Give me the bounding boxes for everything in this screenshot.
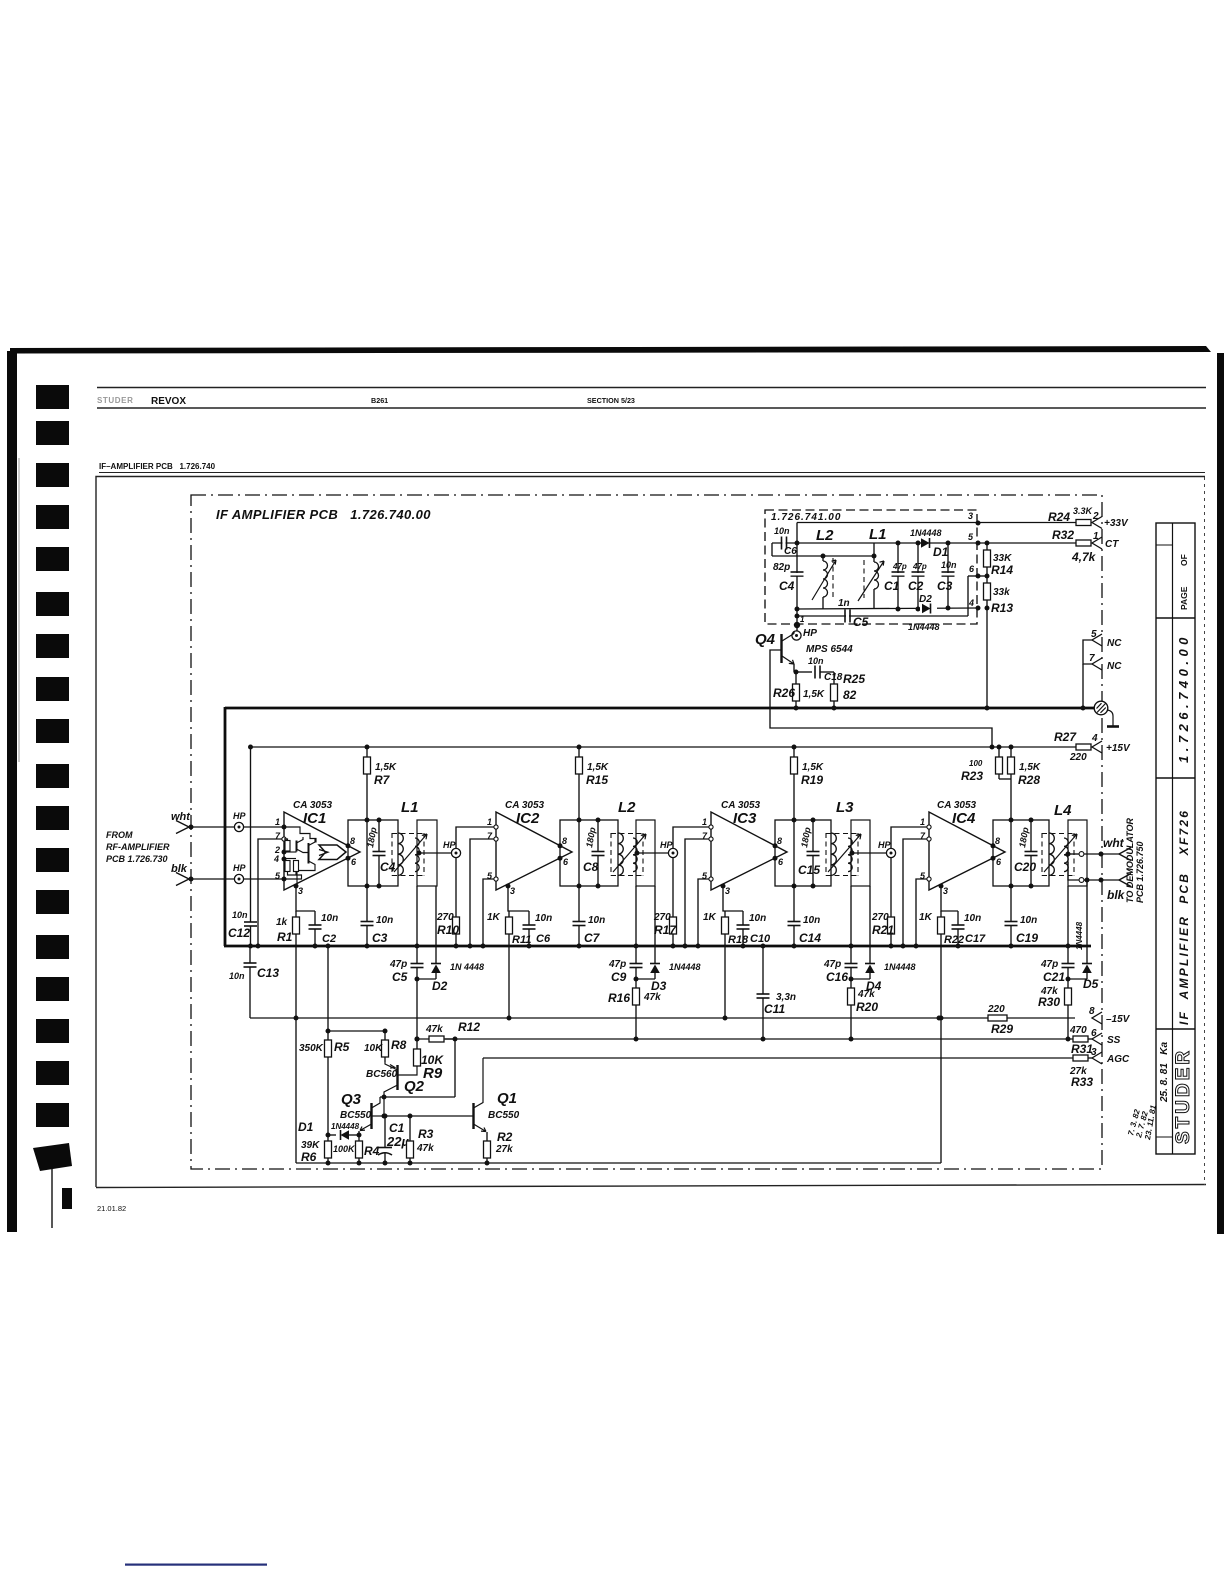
resistor R12 47k — [429, 1036, 444, 1042]
svg-text:R5: R5 — [334, 1040, 350, 1054]
svg-text:47p: 47p — [1040, 959, 1058, 970]
svg-text:C1: C1 — [389, 1121, 405, 1135]
svg-text:BC550: BC550 — [488, 1110, 520, 1121]
testpoint HP stage2 — [451, 848, 460, 857]
svg-text:PAGE: PAGE — [1179, 586, 1189, 610]
node pin5 — [282, 877, 287, 882]
node wht output arrow — [1119, 848, 1131, 861]
capacitor C5 sub 1n — [845, 610, 850, 623]
svg-text:OF: OF — [1179, 554, 1189, 566]
svg-text:270: 270 — [436, 912, 454, 923]
testpoint HP sub — [796, 628, 798, 631]
svg-text:5: 5 — [1091, 629, 1097, 640]
inductor secondary winding — [848, 838, 852, 872]
svg-text:8: 8 — [350, 836, 355, 846]
svg-text:100: 100 — [969, 759, 983, 768]
svg-text:R1: R1 — [277, 930, 293, 944]
inductor L1 transformer — [348, 820, 398, 886]
wire SS rail — [417, 1038, 1073, 1040]
resistor R8 10K — [382, 1040, 389, 1057]
node pin3 — [721, 884, 726, 889]
wire detector join — [417, 978, 436, 980]
svg-text:AGC: AGC — [1106, 1054, 1130, 1065]
svg-text:10n: 10n — [964, 913, 981, 924]
node pin8 — [991, 843, 996, 848]
wire supply riser through box — [366, 820, 368, 886]
svg-text:4: 4 — [1091, 733, 1098, 744]
svg-text:220: 220 — [1069, 752, 1087, 763]
svg-text:R4: R4 — [364, 1144, 380, 1158]
wire +15V rail — [251, 746, 1075, 748]
svg-text:3: 3 — [1091, 1047, 1097, 1058]
core adjust arrow — [613, 834, 646, 872]
resistor R18 1K — [724, 911, 726, 917]
testpoint HP stage3 — [668, 848, 677, 857]
svg-text:33k: 33k — [993, 587, 1010, 598]
svg-text:6: 6 — [1091, 1028, 1097, 1039]
svg-text:L3: L3 — [836, 799, 854, 816]
diode D1 1N4448 — [328, 1134, 336, 1136]
svg-text:Q1: Q1 — [497, 1090, 517, 1107]
scan left edge bar — [7, 351, 17, 1232]
wire wht line — [191, 826, 284, 828]
svg-text:NC: NC — [1107, 638, 1122, 649]
capacitor C2 10n — [314, 911, 316, 925]
capacitor C13 — [249, 946, 251, 963]
svg-text:STUDER: STUDER — [1173, 1048, 1194, 1144]
op-amp IC1 CA3053 — [284, 812, 360, 890]
svg-text:220: 220 — [987, 1004, 1005, 1015]
svg-text:C2: C2 — [908, 579, 924, 593]
svg-text:1k: 1k — [276, 917, 288, 928]
wire pin5 bypass — [916, 879, 929, 946]
inductor L3 transformer — [775, 820, 831, 886]
svg-text:7: 7 — [1089, 653, 1095, 664]
svg-text:3: 3 — [298, 886, 303, 896]
svg-text:1.726.741.00: 1.726.741.00 — [771, 512, 841, 523]
svg-text:R32: R32 — [1052, 528, 1074, 542]
connector pin 8 -15V — [1092, 1012, 1102, 1024]
svg-text:IF–AMPLIFIER PCB 1.726.740: IF–AMPLIFIER PCB 1.726.740 — [99, 462, 216, 471]
transistor Q3 BC550 — [370, 1103, 372, 1129]
resistor R16 47k — [635, 979, 637, 988]
capacitor C21 47p — [1067, 886, 1069, 963]
svg-text:+33V: +33V — [1104, 518, 1129, 529]
svg-text:R23: R23 — [961, 769, 983, 783]
svg-text:R6: R6 — [301, 1150, 317, 1164]
svg-text:D1: D1 — [298, 1120, 314, 1134]
wire supply riser through box — [793, 820, 795, 886]
resistor R23 100 — [998, 747, 1000, 757]
node pin3 — [294, 884, 299, 889]
resistor R9 10K — [414, 1049, 421, 1066]
svg-text:IC1: IC1 — [303, 810, 326, 827]
resistor R19 1,5K — [793, 747, 795, 757]
secondary box — [636, 820, 655, 886]
svg-text:1: 1 — [920, 817, 925, 827]
op-amp IC2 CA3053 — [496, 812, 572, 890]
svg-text:1N4448: 1N4448 — [908, 622, 940, 632]
resistor R31 470 — [1073, 1036, 1088, 1042]
svg-text:47p: 47p — [608, 959, 626, 970]
svg-text:R22: R22 — [944, 934, 964, 946]
resistor R11 1K — [508, 911, 510, 917]
svg-text:R3: R3 — [418, 1127, 434, 1141]
svg-text:R27: R27 — [1054, 730, 1077, 744]
svg-text:4: 4 — [273, 854, 279, 864]
svg-text:R10: R10 — [437, 923, 459, 937]
svg-text:HP: HP — [233, 811, 246, 821]
wire hp riser to pin1 — [673, 827, 711, 848]
svg-text:C17: C17 — [965, 933, 986, 945]
wire pin4 net to ground rail — [976, 606, 981, 611]
svg-text:R33: R33 — [1071, 1075, 1093, 1089]
svg-text:C20: C20 — [1014, 860, 1036, 874]
svg-text:BC560: BC560 — [366, 1069, 398, 1080]
svg-text:IC2: IC2 — [516, 810, 540, 827]
svg-text:R13: R13 — [991, 601, 1013, 615]
svg-text:1N 4448: 1N 4448 — [450, 962, 484, 972]
svg-text:R29: R29 — [991, 1022, 1013, 1036]
wire right -15V tie — [940, 1018, 942, 1163]
title block frame — [1156, 523, 1195, 1154]
resistor R15 1,5K — [578, 747, 580, 757]
svg-text:blk: blk — [1107, 888, 1126, 902]
capacitor C3 10n — [366, 886, 368, 922]
svg-text:10n: 10n — [321, 913, 338, 924]
svg-text:4: 4 — [968, 598, 974, 608]
core dashed — [825, 833, 827, 876]
transistor Q4 MPS6544 — [780, 634, 782, 663]
wire sub pin6 stub — [967, 576, 969, 616]
wire Q4 base route — [770, 650, 992, 747]
svg-text:STUDER: STUDER — [97, 396, 134, 405]
wire bus to R5 R8 node — [327, 946, 329, 1031]
wire bottom -15V return rail — [296, 1162, 941, 1164]
resistor R33 27k — [1073, 1055, 1088, 1061]
svg-text:R19: R19 — [801, 773, 823, 787]
svg-text:blk: blk — [171, 863, 188, 875]
resistor R4 100K — [358, 1135, 360, 1141]
capacitor C14 10n — [793, 886, 795, 922]
svg-text:R25: R25 — [843, 672, 865, 686]
resistor R29 220 — [937, 1016, 942, 1021]
scan top edge bar — [10, 346, 1211, 354]
wire -15V rail — [250, 1017, 1075, 1019]
inductor primary winding — [831, 833, 836, 875]
core dashed — [1041, 833, 1043, 876]
diode D1 sub — [921, 538, 930, 548]
svg-text:10n: 10n — [535, 913, 552, 924]
capacitor C4 sub 82p — [796, 523, 798, 625]
capacitor C19 10n — [1010, 886, 1012, 922]
wire sub pin5 net — [772, 542, 977, 544]
svg-text:C9: C9 — [611, 970, 627, 984]
diode D3 1N4448 — [654, 886, 656, 963]
svg-text:350K: 350K — [299, 1043, 324, 1054]
svg-text:21.01.82: 21.01.82 — [97, 1204, 126, 1213]
core adjust arrow — [1044, 834, 1077, 872]
svg-text:C10: C10 — [750, 933, 771, 945]
svg-text:3.3K: 3.3K — [1073, 506, 1094, 516]
svg-text:R21: R21 — [872, 923, 894, 937]
transistor Q1 BC550 — [472, 1103, 474, 1129]
svg-text:8: 8 — [562, 836, 567, 846]
svg-text:8: 8 — [777, 836, 782, 846]
capacitor C17 10n — [957, 911, 959, 925]
capacitor C4 180p tank — [378, 820, 380, 851]
wire pin5 bypass — [483, 879, 496, 946]
svg-text:PCB 1.726.750: PCB 1.726.750 — [1135, 841, 1145, 903]
svg-text:HP: HP — [233, 863, 246, 873]
svg-text:1: 1 — [800, 615, 805, 624]
svg-text:R30: R30 — [1038, 995, 1060, 1009]
wire sub top (pin 3 net) — [797, 522, 977, 524]
svg-text:R24: R24 — [1048, 510, 1070, 524]
svg-text:HP: HP — [803, 628, 817, 639]
svg-text:R28: R28 — [1018, 773, 1040, 787]
secondary box — [417, 820, 437, 886]
testpoint HP wht — [234, 822, 243, 831]
wire pin3 node — [296, 886, 315, 911]
svg-text:1: 1 — [487, 817, 492, 827]
connector pin 7 NC — [1092, 658, 1102, 670]
svg-text:NC: NC — [1107, 661, 1122, 672]
svg-text:TO DEMODULATOR: TO DEMODULATOR — [1125, 818, 1135, 903]
node pin4 — [282, 857, 287, 862]
node pin3 — [506, 884, 511, 889]
resistor R2 27k — [486, 1132, 488, 1141]
svg-text:47p: 47p — [892, 562, 907, 571]
wire pin6 net — [977, 575, 987, 577]
wire R5R8 node — [328, 1030, 385, 1032]
svg-text:R17: R17 — [654, 923, 677, 937]
capacitor C20 180p tank — [1030, 820, 1032, 851]
svg-text:FROM: FROM — [106, 830, 133, 840]
core adjust arrow — [394, 834, 427, 872]
svg-text:D5: D5 — [1083, 977, 1099, 991]
svg-text:+15V: +15V — [1106, 743, 1131, 754]
wire pin5 to R32 — [977, 542, 1076, 544]
svg-text:1K: 1K — [919, 912, 933, 923]
sub-board 1.726.741.00 dashed outline — [765, 510, 977, 624]
svg-text:47p: 47p — [389, 959, 407, 970]
svg-text:1,5K: 1,5K — [803, 689, 825, 700]
svg-text:wht: wht — [171, 811, 191, 823]
svg-text:1,5K: 1,5K — [375, 762, 397, 773]
svg-text:C12: C12 — [228, 926, 250, 940]
svg-text:C7: C7 — [584, 931, 601, 945]
svg-text:C19: C19 — [1016, 931, 1038, 945]
wire L4 wht tap — [1068, 853, 1079, 855]
connector pin 1 CT — [1092, 537, 1102, 549]
inductor primary winding — [398, 833, 403, 875]
svg-text:wht: wht — [1103, 836, 1125, 850]
svg-text:10n: 10n — [774, 526, 790, 536]
resistor R5 350K — [325, 1040, 332, 1057]
svg-text:27k: 27k — [495, 1144, 513, 1155]
wire pin3 node — [941, 886, 958, 911]
node pin6 — [773, 856, 778, 861]
svg-text:C5: C5 — [392, 970, 408, 984]
svg-text:C16: C16 — [826, 970, 848, 984]
svg-text:470: 470 — [1069, 1025, 1087, 1036]
svg-text:8: 8 — [995, 836, 1000, 846]
svg-text:R12: R12 — [458, 1020, 480, 1034]
inductor L2 transformer — [560, 820, 618, 886]
svg-text:1: 1 — [702, 817, 707, 827]
wire R12 to Q3 collector riser — [454, 1039, 456, 1097]
diode D2 1N4448 — [435, 886, 437, 963]
resistor R27 220 — [1075, 746, 1076, 748]
wire AGC rail — [483, 1057, 1073, 1059]
svg-text:10n: 10n — [1020, 915, 1037, 926]
secondary box — [1068, 820, 1087, 886]
capacitor C2 sub 47p — [917, 543, 919, 609]
svg-text:1K: 1K — [703, 912, 717, 923]
resistor R32 4,7k — [1076, 540, 1091, 546]
transistor Q2 BC560 — [396, 1065, 398, 1090]
core dashed — [391, 833, 393, 876]
svg-text:C14: C14 — [799, 931, 821, 945]
svg-text:IC4: IC4 — [952, 810, 976, 827]
diode D4 1N4448 — [869, 886, 871, 963]
resistor R24 3.3K — [1076, 520, 1091, 526]
wire base bus Q3 Q1 — [384, 1115, 470, 1117]
svg-text:C5: C5 — [853, 615, 869, 629]
svg-text:CT: CT — [1105, 539, 1119, 550]
svg-text:82p: 82p — [773, 562, 790, 573]
svg-text:3: 3 — [968, 511, 973, 521]
svg-text:3: 3 — [725, 886, 730, 896]
svg-text:PCB 1.726.730: PCB 1.726.730 — [106, 854, 168, 864]
svg-text:C3: C3 — [372, 931, 388, 945]
wire detector join — [636, 978, 655, 980]
node pin1 — [282, 825, 287, 830]
svg-text:IC3: IC3 — [733, 810, 757, 827]
inductor secondary winding — [415, 838, 419, 872]
resistor R7 1,5K — [366, 747, 368, 757]
node blk input arrow — [176, 873, 189, 886]
node blk output arrow — [1119, 874, 1131, 887]
svg-text:D1: D1 — [933, 545, 949, 559]
svg-text:R16: R16 — [608, 991, 630, 1005]
svg-text:47p: 47p — [823, 959, 841, 970]
svg-text:IF AMPLIFIER PCB XF726: IF AMPLIFIER PCB XF726 — [1177, 809, 1191, 1025]
resistor R1 1k — [295, 911, 297, 917]
capacitor C11 3,3n — [762, 946, 764, 994]
testpoint HP blk — [234, 874, 243, 883]
svg-text:47k: 47k — [425, 1024, 443, 1035]
core adjust arrow — [828, 834, 861, 872]
wire detector to R12 — [416, 979, 418, 1039]
capacitor C3 sub 10n — [947, 543, 949, 608]
svg-text:R2: R2 — [497, 1130, 513, 1144]
capacitor C7 10n — [578, 886, 580, 922]
svg-text:10n: 10n — [588, 915, 605, 926]
wire L4 blk tap — [1068, 862, 1079, 880]
svg-text:R15: R15 — [586, 773, 608, 787]
svg-text:10n: 10n — [749, 913, 766, 924]
wire sub L-top link — [772, 555, 874, 557]
svg-text:10K: 10K — [364, 1043, 383, 1054]
wire pin3 to R24 — [977, 522, 1076, 524]
wire supply riser through box — [578, 820, 580, 886]
connector pin 2 +33V — [1092, 517, 1102, 529]
node pin6 — [991, 856, 996, 861]
header rule top — [97, 387, 1206, 389]
page crease line — [18, 458, 20, 762]
wire NC tie to ground — [1083, 640, 1092, 664]
svg-text:C4: C4 — [779, 579, 795, 593]
svg-text:47k: 47k — [857, 989, 875, 1000]
svg-text:L4: L4 — [1054, 802, 1072, 819]
svg-text:HP: HP — [443, 840, 456, 850]
wire ground bottom bus — [224, 945, 1091, 948]
node pin6 — [346, 856, 351, 861]
testpoint HP stage4 — [886, 848, 895, 857]
core dashed — [610, 833, 612, 876]
wire detector join — [851, 978, 870, 980]
op-amp IC3 CA3053 — [711, 812, 787, 890]
wire supply riser through box — [1010, 820, 1012, 886]
inductor secondary winding — [633, 838, 637, 872]
node pin2 — [282, 850, 287, 855]
resistor R17 270 — [672, 858, 674, 917]
resistor R25 82 — [833, 672, 835, 684]
svg-text:D2: D2 — [432, 979, 448, 993]
wire sub bottom (pin 4 net) — [797, 608, 977, 609]
inductor secondary winding — [1064, 838, 1068, 872]
wire tap to next stage — [637, 852, 668, 854]
svg-text:25. 8. 81 Ka: 25. 8. 81 Ka — [1159, 1042, 1170, 1103]
connector pin 4 +15V — [1092, 741, 1102, 753]
wire left -15V tie — [295, 1018, 297, 1163]
ground symbol — [1094, 701, 1119, 726]
svg-text:3: 3 — [943, 886, 948, 896]
resistor R14 33K — [986, 543, 988, 550]
svg-text:8: 8 — [1089, 1006, 1095, 1017]
svg-text:10n: 10n — [232, 910, 248, 920]
capacitor C15 180p tank — [812, 820, 814, 851]
inductor L4 transformer — [993, 820, 1049, 886]
wire Q3 collector link — [380, 1096, 455, 1098]
capacitor C6 10n — [528, 911, 530, 925]
svg-text:4,7k: 4,7k — [1071, 550, 1097, 564]
svg-text:SS: SS — [1107, 1035, 1121, 1046]
svg-text:1n: 1n — [838, 598, 850, 609]
node wht input arrow — [176, 821, 189, 834]
secondary box — [851, 820, 870, 886]
wire blk line — [191, 878, 284, 880]
capacitor C12 — [250, 747, 252, 922]
inductor L1 sub — [873, 556, 875, 562]
capacitor C9 47p — [635, 886, 637, 963]
svg-text:Q2: Q2 — [404, 1078, 425, 1095]
svg-text:R31: R31 — [1071, 1042, 1093, 1056]
op-amp IC4 CA3053 — [929, 812, 1005, 890]
svg-text:C21: C21 — [1043, 970, 1065, 984]
capacitor C10 10n — [742, 911, 744, 925]
svg-text:Q3: Q3 — [341, 1091, 362, 1108]
svg-text:3: 3 — [510, 886, 515, 896]
connector pin 3 AGC — [1092, 1052, 1102, 1064]
svg-text:1N4448: 1N4448 — [884, 962, 916, 972]
inductor primary winding — [1049, 833, 1054, 875]
capacitor C5 47p — [416, 886, 418, 963]
svg-text:270: 270 — [653, 912, 671, 923]
svg-text:HP: HP — [660, 840, 673, 850]
